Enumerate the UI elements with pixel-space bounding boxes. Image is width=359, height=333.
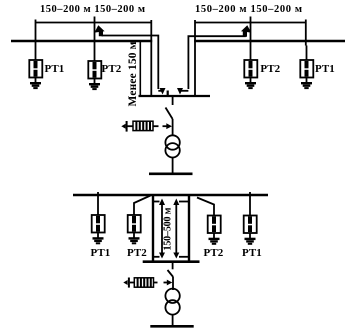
tube arrester RT2 right top diagram bbox=[244, 46, 257, 83]
label 150-500 m vertical bbox=[163, 207, 174, 250]
wire tap foot left bbox=[158, 90, 162, 92]
arrowhead of dashed link bbox=[166, 123, 172, 129]
wire vertical beside text bbox=[139, 41, 141, 95]
svg-text:РТ2: РТ2 bbox=[102, 63, 122, 75]
label RT2 right bottom bbox=[204, 247, 224, 259]
svg-text:Менее 150 м: Менее 150 м bbox=[127, 41, 139, 106]
arrowhead down right bbox=[173, 253, 179, 259]
bus bar substation top bbox=[139, 95, 211, 97]
tube arrester RT2 right bottom diagram bbox=[197, 198, 221, 239]
wire tap run right bbox=[188, 36, 245, 89]
wire overhead line right segment bbox=[194, 40, 345, 42]
label RT2 right bbox=[260, 63, 280, 75]
wire overhead line left segment bbox=[11, 40, 152, 42]
ground of RT1 right bottom bbox=[245, 239, 256, 244]
wire tap right vertical bottom bbox=[188, 195, 190, 262]
ground of RT1 left bottom bbox=[93, 238, 104, 243]
wire tap foot right bbox=[180, 90, 189, 92]
dimension tick at RT1 left bbox=[35, 20, 37, 46]
arrowhead down left bbox=[159, 253, 165, 259]
tube arrester RT1 left bottom diagram bbox=[92, 192, 105, 238]
ground of RT2 right bottom bbox=[209, 239, 220, 244]
arrowhead up left bbox=[159, 199, 165, 206]
tube arrester horizontal: end bar bbox=[126, 121, 128, 132]
label RT1 right bottom bbox=[242, 247, 262, 259]
svg-text:РТ2: РТ2 bbox=[127, 247, 147, 259]
label RT2 left bottom bbox=[127, 247, 147, 259]
tube arrester RT1 right bottom diagram bbox=[244, 192, 257, 238]
wire left line end down-feed bbox=[150, 20, 152, 95]
disconnector switch top bbox=[166, 97, 173, 136]
dimension stub bottom left bbox=[153, 256, 160, 258]
dimension line right 150-200m spans bbox=[195, 22, 305, 24]
label 150-200 m 150-200 m left bbox=[40, 4, 145, 15]
ground of RT2 left bottom bbox=[129, 238, 140, 243]
ground of RT1 left bbox=[30, 83, 41, 88]
tube arrester horizontal bottom: exhaust arrow bbox=[123, 280, 127, 285]
ground line bottom diagram bbox=[150, 325, 193, 328]
svg-text:РТ2: РТ2 bbox=[260, 63, 280, 75]
arrowhead dimension end left at bus bbox=[160, 88, 166, 95]
arrowhead up right bbox=[173, 199, 179, 206]
label RT1 left bbox=[45, 63, 65, 75]
wire right line end down-feed bbox=[194, 20, 196, 95]
dimension line left 150-500 m bbox=[161, 201, 163, 256]
dimension line left 150-200m spans bbox=[36, 22, 152, 24]
ground of RT2 right bbox=[245, 83, 256, 88]
label 150-200 m 150-200 m right bbox=[195, 4, 302, 15]
tube arrester horizontal at transformer top: exhaust arrow bbox=[121, 124, 125, 129]
label Menee 150 m vertical bbox=[127, 41, 139, 106]
svg-text:150–500 м: 150–500 м bbox=[163, 207, 174, 250]
dimension stub top right bbox=[179, 201, 189, 203]
dimension stub top left bbox=[153, 201, 160, 203]
label RT1 left bottom bbox=[91, 247, 111, 259]
ground of RT2 left bbox=[89, 84, 100, 89]
wire transformer to ground bbox=[172, 158, 174, 174]
wire overhead line bottom bbox=[73, 194, 268, 196]
svg-text:150–200 м 150–200 м: 150–200 м 150–200 м bbox=[40, 4, 145, 15]
svg-text:РТ1: РТ1 bbox=[242, 247, 262, 259]
svg-text:150–200 м 150–200 м: 150–200 м 150–200 м bbox=[195, 4, 302, 15]
transformer top diagram bbox=[165, 135, 179, 157]
wire tap run left bbox=[102, 36, 159, 90]
svg-text:РТ1: РТ1 bbox=[315, 63, 335, 75]
wire tap left vertical bottom bbox=[152, 195, 154, 262]
tube arrester horizontal bottom: end bar bbox=[128, 278, 130, 288]
tube arrester horizontal: hatched body bbox=[133, 121, 153, 130]
arrow tap connection right at RT2 bbox=[241, 25, 251, 37]
tube arrester horizontal bottom: left stem bbox=[130, 282, 135, 284]
ground of RT1 right bbox=[301, 83, 312, 88]
dimension line right 150-500 m bbox=[175, 201, 177, 256]
bus bar substation bottom bbox=[143, 260, 200, 263]
label RT1 right bbox=[315, 63, 335, 75]
tube arrester RT1 left top diagram bbox=[29, 46, 42, 83]
wire transformer to ground bottom bbox=[172, 315, 174, 325]
tube arrester RT2 left bottom diagram bbox=[128, 196, 151, 238]
svg-text:РТ1: РТ1 bbox=[45, 63, 65, 75]
tube arrester horizontal: right stem and dashed link bbox=[153, 125, 167, 127]
tube arrester RT1 right top diagram bbox=[300, 46, 313, 83]
arrowhead dimension end right at bus bbox=[177, 88, 183, 95]
label RT2 left bbox=[102, 63, 122, 75]
arrowhead of dashed link bottom bbox=[167, 280, 173, 286]
dimension tick at RT2 right bbox=[250, 17, 252, 46]
dimension tick at RT2 left bbox=[94, 17, 96, 46]
svg-text:РТ2: РТ2 bbox=[204, 247, 224, 259]
svg-text:РТ1: РТ1 bbox=[91, 247, 111, 259]
tube arrester horizontal: left stem bbox=[128, 125, 134, 127]
tube arrester horizontal bottom: hatched body bbox=[134, 278, 153, 287]
dimension tick at RT1 right bbox=[305, 20, 307, 46]
dimension stub bottom right bbox=[179, 256, 189, 258]
junction mark on bus bbox=[167, 91, 169, 97]
tube arrester RT2 left top diagram bbox=[88, 46, 101, 84]
disconnector switch bottom bbox=[168, 263, 174, 291]
ground line top diagram bbox=[149, 173, 193, 176]
arrow tap connection left at RT2 bbox=[94, 25, 104, 36]
transformer bottom diagram bbox=[165, 289, 179, 315]
tube arrester horizontal bottom: right stem and dashed link bbox=[154, 282, 168, 284]
